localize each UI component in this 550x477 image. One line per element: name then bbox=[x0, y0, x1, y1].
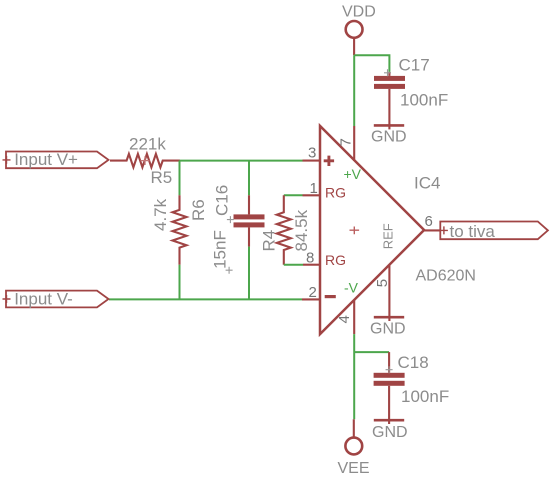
flag to tiva bbox=[440, 222, 548, 240]
label 84.5k bbox=[292, 209, 311, 251]
svg-text:3: 3 bbox=[308, 145, 316, 162]
label REF bbox=[381, 223, 396, 249]
flag Input V+ bbox=[6, 152, 109, 169]
pin 3 lead bbox=[303, 160, 320, 162]
svg-text:5: 5 bbox=[374, 279, 391, 287]
junction cross at Input V+ flag bbox=[3, 156, 11, 164]
label GND C18 bbox=[372, 424, 408, 441]
pin 6 lead bbox=[424, 229, 441, 231]
svg-text:84.5k: 84.5k bbox=[292, 209, 311, 251]
label C18 bbox=[398, 353, 429, 372]
svg-text:to tiva: to tiva bbox=[450, 222, 496, 241]
op-amp IC4 triangle bbox=[320, 126, 424, 334]
pin number 3 bbox=[308, 145, 316, 162]
ground symbol pin 5 bbox=[374, 316, 404, 319]
pin number 2 bbox=[309, 284, 317, 301]
wire branch to C17 bbox=[354, 55, 389, 72]
ground symbol below C17 bbox=[374, 124, 404, 127]
wire C16 top bbox=[248, 161, 250, 196]
pin 2 lead bbox=[302, 298, 319, 300]
wire pin 4 down bbox=[353, 334, 355, 419]
capacitor C18 bbox=[374, 352, 405, 424]
label 221k bbox=[129, 134, 166, 153]
label IC4 bbox=[414, 174, 440, 193]
svg-text:C17: C17 bbox=[399, 56, 430, 75]
svg-text:15nF: 15nF bbox=[211, 230, 230, 269]
origin cross IC4 bbox=[350, 227, 360, 235]
svg-text:VEE: VEE bbox=[338, 460, 370, 477]
label 100nF C18 bbox=[401, 387, 449, 406]
svg-text:221k: 221k bbox=[129, 134, 166, 153]
svg-text:7: 7 bbox=[337, 138, 354, 146]
label C16 bbox=[213, 185, 232, 216]
label -V bbox=[344, 279, 359, 295]
junction cross at Input V- flag bbox=[3, 295, 11, 303]
origin cross C16 value bbox=[226, 267, 233, 274]
svg-text:IC4: IC4 bbox=[414, 174, 440, 193]
pin number 5 bbox=[374, 279, 391, 287]
pin number 8 bbox=[306, 249, 314, 266]
wire top row to pin 3 bbox=[180, 160, 303, 162]
svg-text:2: 2 bbox=[309, 284, 317, 301]
capacitor C17 bbox=[374, 72, 405, 129]
supply VEE symbol bbox=[345, 419, 362, 454]
svg-text:C18: C18 bbox=[398, 353, 429, 372]
label Input V- bbox=[14, 289, 73, 308]
svg-text:R5: R5 bbox=[151, 168, 173, 187]
flag Input V- bbox=[6, 291, 109, 308]
label to tiva bbox=[450, 222, 496, 241]
svg-text:6: 6 bbox=[425, 213, 433, 230]
junction cross at to tiva flag bbox=[440, 226, 448, 234]
capacitor C16 bbox=[234, 195, 265, 246]
label 15nF bbox=[211, 230, 230, 269]
svg-text:GND: GND bbox=[372, 424, 408, 441]
label VDD bbox=[342, 4, 376, 21]
supply VDD symbol bbox=[346, 21, 363, 55]
label AD620N bbox=[416, 268, 476, 285]
pin 1 lead bbox=[303, 194, 320, 196]
pin 7 lead bbox=[353, 126, 355, 161]
svg-text:GND: GND bbox=[371, 128, 407, 145]
svg-text:RG: RG bbox=[325, 185, 346, 201]
svg-text:-V: -V bbox=[344, 279, 359, 295]
svg-text:AD620N: AD620N bbox=[416, 268, 476, 285]
wire VDD to pin 7 bbox=[353, 55, 355, 126]
origin cross C17 bbox=[384, 69, 391, 76]
resistor R5 bbox=[110, 154, 180, 167]
svg-text:100nF: 100nF bbox=[401, 387, 449, 406]
svg-text:1: 1 bbox=[310, 180, 318, 197]
svg-text:GND: GND bbox=[370, 321, 406, 338]
origin cross C16 name bbox=[227, 216, 234, 223]
pin number 1 bbox=[310, 180, 318, 197]
label RG pin 8 bbox=[325, 252, 346, 268]
pin number 7 bbox=[337, 138, 354, 146]
label R5 bbox=[151, 168, 173, 187]
wire bottom row bbox=[109, 298, 302, 300]
plus symbol pin 3 input bbox=[324, 156, 334, 166]
svg-text:REF: REF bbox=[381, 223, 396, 249]
label +V bbox=[344, 166, 362, 182]
svg-text:4.7k: 4.7k bbox=[151, 198, 170, 231]
label VEE bbox=[338, 460, 370, 477]
ground symbol below C18 bbox=[374, 419, 404, 422]
label 100nF C17 bbox=[400, 90, 448, 109]
minus symbol pin 2 input bbox=[325, 295, 336, 298]
origin cross R5 bbox=[141, 156, 150, 165]
pin 5 lead bbox=[388, 265, 390, 321]
svg-text:100nF: 100nF bbox=[400, 90, 448, 109]
resistor R6 bbox=[173, 195, 187, 264]
label Input V+ bbox=[14, 150, 78, 169]
resistor R4 bbox=[277, 195, 291, 264]
wire pin 1 to R4 bbox=[284, 194, 303, 196]
wire R6 top bbox=[179, 161, 181, 196]
pin 8 lead bbox=[303, 264, 319, 266]
pin number 4 bbox=[336, 315, 353, 323]
svg-text:VDD: VDD bbox=[342, 4, 376, 21]
wire pin 8 to R4 bbox=[284, 264, 303, 266]
svg-text:8: 8 bbox=[306, 249, 314, 266]
wire branch to C18 bbox=[354, 351, 389, 353]
svg-text:Input V-: Input V- bbox=[14, 289, 73, 308]
svg-text:RG: RG bbox=[325, 252, 346, 268]
svg-text:R6: R6 bbox=[189, 199, 208, 221]
label C17 bbox=[399, 56, 430, 75]
origin cross C18 bbox=[386, 366, 393, 373]
label 4.7k bbox=[151, 198, 170, 231]
label R4 bbox=[260, 230, 279, 252]
svg-text:C16: C16 bbox=[213, 185, 232, 216]
label GND C17 bbox=[371, 128, 407, 145]
pin number 6 bbox=[425, 213, 433, 230]
pin 4 lead bbox=[353, 300, 355, 334]
wire C16 bottom bbox=[248, 247, 250, 300]
svg-text:4: 4 bbox=[336, 315, 353, 323]
label R6 bbox=[189, 199, 208, 221]
svg-text:Input V+: Input V+ bbox=[14, 150, 78, 169]
label GND pin 5 bbox=[370, 321, 406, 338]
svg-text:R4: R4 bbox=[260, 230, 279, 252]
label RG pin 1 bbox=[325, 185, 346, 201]
wire R6 bottom bbox=[179, 265, 181, 300]
svg-text:+V: +V bbox=[344, 166, 362, 182]
